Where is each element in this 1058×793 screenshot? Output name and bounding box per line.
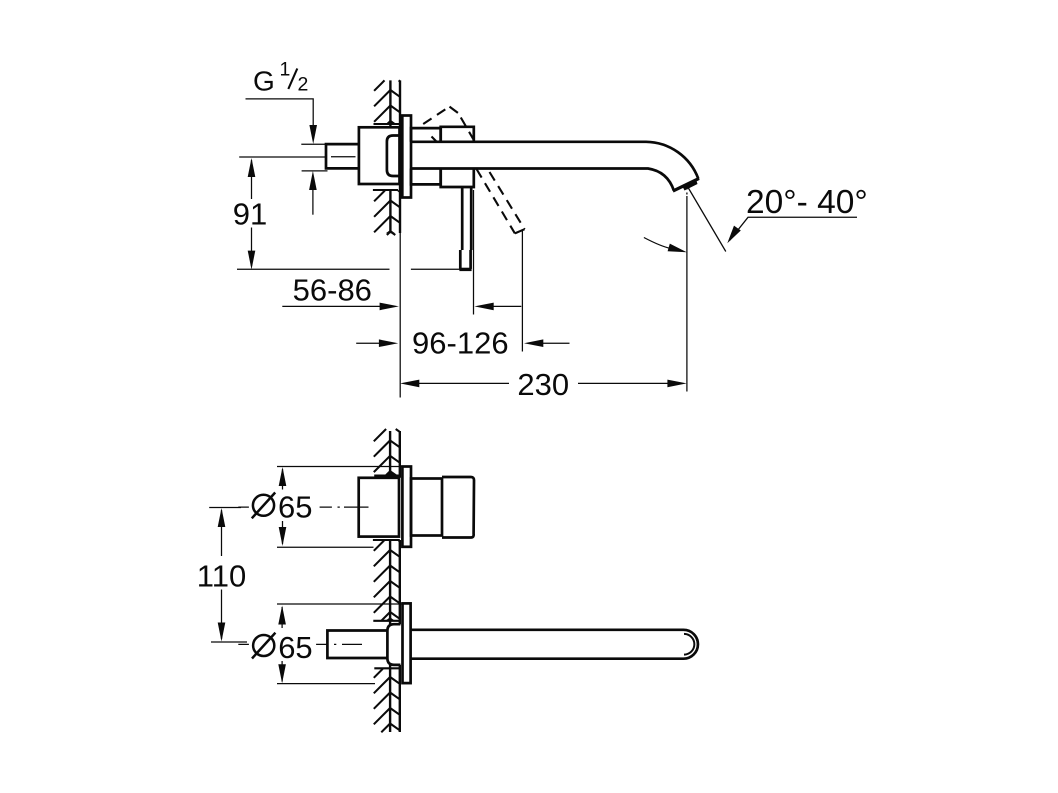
svg-text:2: 2 [298, 74, 309, 96]
svg-text:110: 110 [197, 558, 246, 593]
svg-text:230: 230 [517, 367, 569, 402]
svg-text:20°- 40°: 20°- 40° [746, 184, 868, 221]
svg-text:65: 65 [278, 630, 312, 665]
svg-text:1: 1 [280, 59, 291, 81]
svg-text:91: 91 [233, 197, 267, 232]
svg-text:65: 65 [278, 490, 312, 525]
svg-text:G: G [253, 66, 275, 97]
svg-text:96-126: 96-126 [412, 325, 509, 360]
svg-text:56-86: 56-86 [293, 273, 372, 308]
